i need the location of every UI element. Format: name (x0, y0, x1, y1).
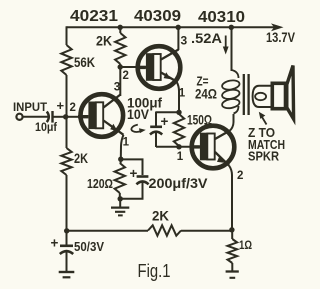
label SPKR (248, 150, 279, 164)
svg-text:40231: 40231 (70, 8, 118, 25)
wire 120 ohm to ground node (119, 193, 121, 199)
pin 1 label Q1 emitter (123, 137, 130, 149)
label .52A (191, 31, 222, 46)
svg-text:1Ω: 1Ω (239, 240, 252, 252)
resistor 2K left (61, 148, 71, 175)
svg-text:+: + (57, 98, 65, 113)
svg-text:1: 1 (123, 137, 130, 149)
label 13.7V (266, 29, 296, 45)
svg-text:2: 2 (123, 70, 129, 82)
svg-text:3: 3 (181, 34, 188, 48)
svg-text:+: + (51, 236, 59, 251)
wire bottom rail right (181, 230, 232, 232)
capacitor 100uf (150, 112, 162, 148)
svg-text:2: 2 (70, 102, 76, 114)
wire junction to Q2 base (120, 66, 146, 68)
speaker (272, 66, 293, 120)
resistor 120 ohm (115, 163, 125, 193)
node input junction (63, 114, 68, 119)
transformer secondary coil (253, 86, 272, 107)
wire input terminal to capacitor (23, 116, 49, 118)
wire 200uf to ground wire (120, 182, 143, 199)
svg-text:3: 3 (114, 80, 121, 94)
node 2K / Q2 base junction (118, 64, 123, 69)
transformer core (244, 74, 249, 115)
label type 40231 (70, 8, 118, 25)
svg-text:SPKR: SPKR (248, 150, 279, 164)
node 120 ohm / 200uf ground junction (118, 196, 123, 201)
capacitor 10uf curved plate (47, 112, 49, 123)
svg-text:13.7V: 13.7V (266, 29, 296, 45)
svg-text:.52A: .52A (191, 31, 222, 46)
node 1 ohm junction (229, 227, 234, 232)
callout arrow to 100uf (131, 125, 145, 134)
ground below 120 ohm (111, 199, 129, 216)
wire 56K to input node (66, 75, 68, 117)
label 150 ohm (187, 113, 212, 128)
supply arrowhead to 13.7V (271, 23, 284, 31)
label 56K (74, 55, 95, 70)
svg-text:40309: 40309 (134, 8, 181, 25)
callout arrow to secondary (259, 112, 267, 125)
label 10uf (35, 120, 58, 134)
svg-text:200μf/3V: 200μf/3V (149, 176, 208, 191)
node 150 ohm / Q3 base junction (176, 144, 181, 149)
pin 3 label Q1 collector (114, 80, 121, 94)
input terminal (16, 114, 22, 120)
pin 1 label Q2 emitter (179, 88, 186, 100)
svg-text:Fig.1: Fig.1 (138, 261, 171, 281)
label 50/3V (74, 239, 104, 254)
capacitor 10uf straight plate (51, 111, 53, 123)
pin 2 label Q3 emitter (237, 170, 243, 182)
wire top supply rail (67, 26, 275, 28)
wire Q2 collector to rail (177, 27, 179, 50)
svg-text:10V: 10V (127, 107, 149, 122)
label 2K left (74, 151, 88, 166)
wire emitter junction to 200uf (121, 159, 143, 175)
svg-text:INPUT: INPUT (13, 100, 48, 114)
svg-text:1: 1 (177, 151, 184, 163)
wire Q1 base from input node (66, 116, 80, 118)
wire rail to 2K top (119, 27, 121, 33)
wire 2K to bottom node (66, 175, 68, 231)
capacitor 50/3V (60, 231, 73, 271)
wire Q3 collector to transformer (230, 114, 234, 131)
transformer primary coil Z=24 ohm (221, 70, 240, 114)
svg-text:120Ω: 120Ω (87, 176, 113, 191)
label Z= (197, 74, 209, 89)
svg-text:2K: 2K (96, 34, 112, 49)
wire rail to transformer primary (231, 27, 233, 71)
svg-text:40310: 40310 (198, 9, 245, 26)
pin 2 label Q2 base (123, 70, 129, 82)
label type 40310 (198, 9, 245, 26)
wire Q3 emitter down to 1 ohm node (229, 166, 232, 230)
resistor 56K (61, 45, 71, 75)
node rail / transformer junction (229, 25, 234, 30)
label 100uf (127, 96, 162, 111)
label 2K top (96, 34, 112, 49)
resistor 1 ohm (228, 239, 238, 263)
capacitor 200uf curved plate (136, 182, 148, 185)
label INPUT (13, 100, 48, 114)
label 200uf/3V (149, 176, 208, 191)
wire junction down to Q1 collector (119, 64, 121, 96)
label Fig.1 (138, 261, 171, 281)
polarity + of 50/3V (51, 236, 59, 251)
polarity + of 200uf (130, 166, 138, 181)
label 1 ohm (239, 240, 252, 252)
wire left column top (rail to 56K) (66, 26, 68, 45)
transistor Q3 40310 (190, 126, 235, 169)
wire Q2 emitter down (177, 82, 180, 113)
svg-text:2K: 2K (152, 209, 169, 224)
label MATCH (248, 138, 285, 152)
current arrow .52A (223, 36, 229, 55)
pin 1 label Q3 base (177, 151, 184, 163)
label 2K bottom (152, 209, 169, 224)
wire 100uf bottom to Q3 base (156, 146, 201, 148)
svg-text:24Ω: 24Ω (195, 86, 217, 102)
wire 10uf to input node (53, 116, 67, 118)
svg-text:50/3V: 50/3V (74, 239, 104, 254)
label 24 ohm (195, 86, 217, 102)
resistor 2K top (115, 33, 125, 64)
wire junction to 1 ohm (231, 230, 233, 240)
wire input node to 2K (66, 117, 68, 148)
pin 2 label Q1 base (70, 102, 76, 114)
resistor 150 ohm (174, 114, 184, 146)
svg-text:+: + (161, 114, 169, 129)
ground below 50/3V (59, 272, 75, 277)
transistor Q2 40309 (136, 46, 181, 89)
capacitor 200uf straight plate (137, 175, 149, 178)
svg-text:2: 2 (237, 170, 243, 182)
label Z TO (248, 126, 275, 140)
label 10V (127, 107, 149, 122)
resistor 2K bottom (148, 225, 181, 235)
wire 1 ohm to ground (231, 263, 233, 271)
node bottom left junction (64, 228, 69, 233)
wire junction to 120 ohm (120, 159, 122, 163)
label type 40309 (134, 8, 181, 25)
pin 3 label Q2 collector (181, 34, 188, 48)
wire emitter junction to 100uf top (156, 111, 179, 113)
ground below 1 ohm (226, 272, 239, 278)
node rail / Q2 collector junction (176, 25, 181, 30)
svg-text:10μf: 10μf (35, 120, 58, 134)
polarity + of 100uf (161, 114, 169, 129)
node Q2 emitter junction (176, 110, 181, 115)
node rail/2K junction (118, 25, 123, 30)
label 120 ohm (87, 176, 113, 191)
svg-text:2K: 2K (74, 151, 88, 166)
svg-text:56K: 56K (74, 55, 95, 70)
wire Q1 emitter down (121, 135, 124, 159)
wire bottom rail left (67, 230, 149, 232)
node Q1 emitter junction (118, 157, 123, 162)
polarity + of 10uf (57, 98, 65, 113)
svg-text:+: + (130, 166, 138, 181)
transistor Q1 40231 (78, 94, 124, 137)
